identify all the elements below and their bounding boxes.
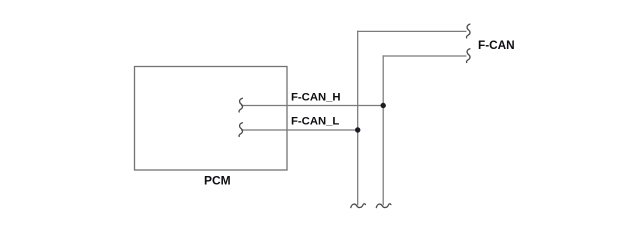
svg-text:F-CAN_L: F-CAN_L — [291, 115, 339, 127]
svg-text:F-CAN_H: F-CAN_H — [291, 92, 341, 104]
svg-text:PCM: PCM — [204, 174, 231, 188]
svg-text:F-CAN: F-CAN — [478, 38, 515, 52]
